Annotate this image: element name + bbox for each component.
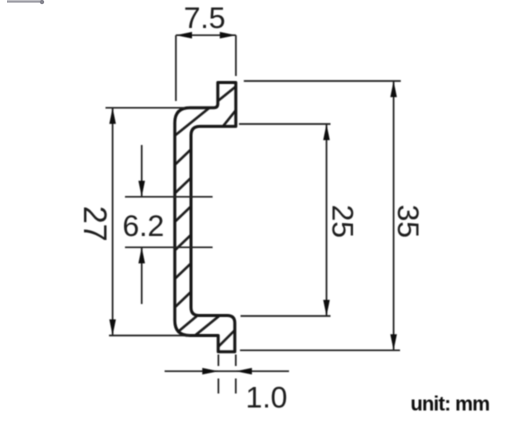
hatch web 6 (171, 288, 195, 311)
arrow 25 bottom (323, 300, 330, 316)
hatching inside profile (170, 84, 240, 349)
hatch web 4 (171, 231, 195, 254)
hatch bottom flange 1 (173, 310, 204, 336)
svg-text:6.2: 6.2 (122, 210, 164, 243)
ext line 7.5 left (175, 35, 177, 101)
6.2 lower line (125, 246, 213, 248)
arrow 27 top (109, 108, 116, 124)
ext line 27 top (106, 107, 186, 109)
hatch lip-flange long (170, 84, 239, 140)
6.2 arrow stem lower (141, 247, 143, 304)
dim line 35 (393, 81, 395, 350)
ext line 1.0 left upper (217, 355, 219, 367)
profile outline (175, 83, 236, 352)
dim line 1.0 (165, 370, 289, 372)
arrow 7.5 right (220, 32, 236, 39)
6.2 upper line (125, 196, 213, 198)
svg-text:35: 35 (391, 205, 424, 238)
dimension 7.5 (176, 35, 236, 101)
arrow 25 top (323, 124, 330, 140)
ext line 35 bottom (240, 349, 400, 351)
ext line 1.0 right upper (235, 355, 237, 367)
svg-text:7.5: 7.5 (184, 2, 226, 35)
hatch web 5 (171, 260, 195, 283)
arrow 35 bottom (390, 334, 397, 350)
hatch web 2 (171, 174, 195, 197)
dim line 27 (112, 108, 114, 336)
hatch web 1 (171, 146, 195, 169)
stray gray artifact line top-left (7, 0, 44, 4)
hatch bottom flange 2 (195, 312, 224, 336)
dimension 27 (106, 108, 191, 336)
ext line 35 top (244, 80, 401, 82)
dimension 6.2 (125, 145, 213, 304)
ext line 25 top (239, 123, 331, 125)
arrow 7.5 left (176, 32, 192, 39)
ext line 1.0 right lower (235, 379, 237, 394)
hatch lip lower (220, 105, 240, 130)
arrow 35 top (390, 81, 397, 97)
hatch tab (216, 327, 238, 349)
dimension 1.0 (165, 355, 289, 394)
ext line 25 bottom (241, 315, 331, 317)
dim line 7.5 (176, 34, 236, 36)
dimension 35 (240, 81, 401, 350)
arrow 27 bottom (109, 319, 116, 335)
arrow 1.0 left (202, 368, 218, 375)
dim line 25 (326, 124, 328, 316)
ext line 1.0 left lower (217, 379, 219, 394)
svg-text:25: 25 (326, 205, 359, 238)
arrow 1.0 right (236, 368, 252, 375)
arrow 6.2 up (138, 247, 145, 263)
6.2 arrow stem upper (141, 145, 143, 197)
arrow 6.2 down (138, 181, 145, 197)
dimension 25 (239, 124, 331, 316)
hatch web 3 (171, 203, 195, 226)
svg-text:1.0: 1.0 (246, 382, 288, 415)
svg-text:27: 27 (77, 206, 113, 242)
svg-text:unit: mm: unit: mm (411, 394, 490, 416)
ext line 7.5 right (235, 35, 237, 76)
ext line 27 bottom (109, 335, 190, 337)
